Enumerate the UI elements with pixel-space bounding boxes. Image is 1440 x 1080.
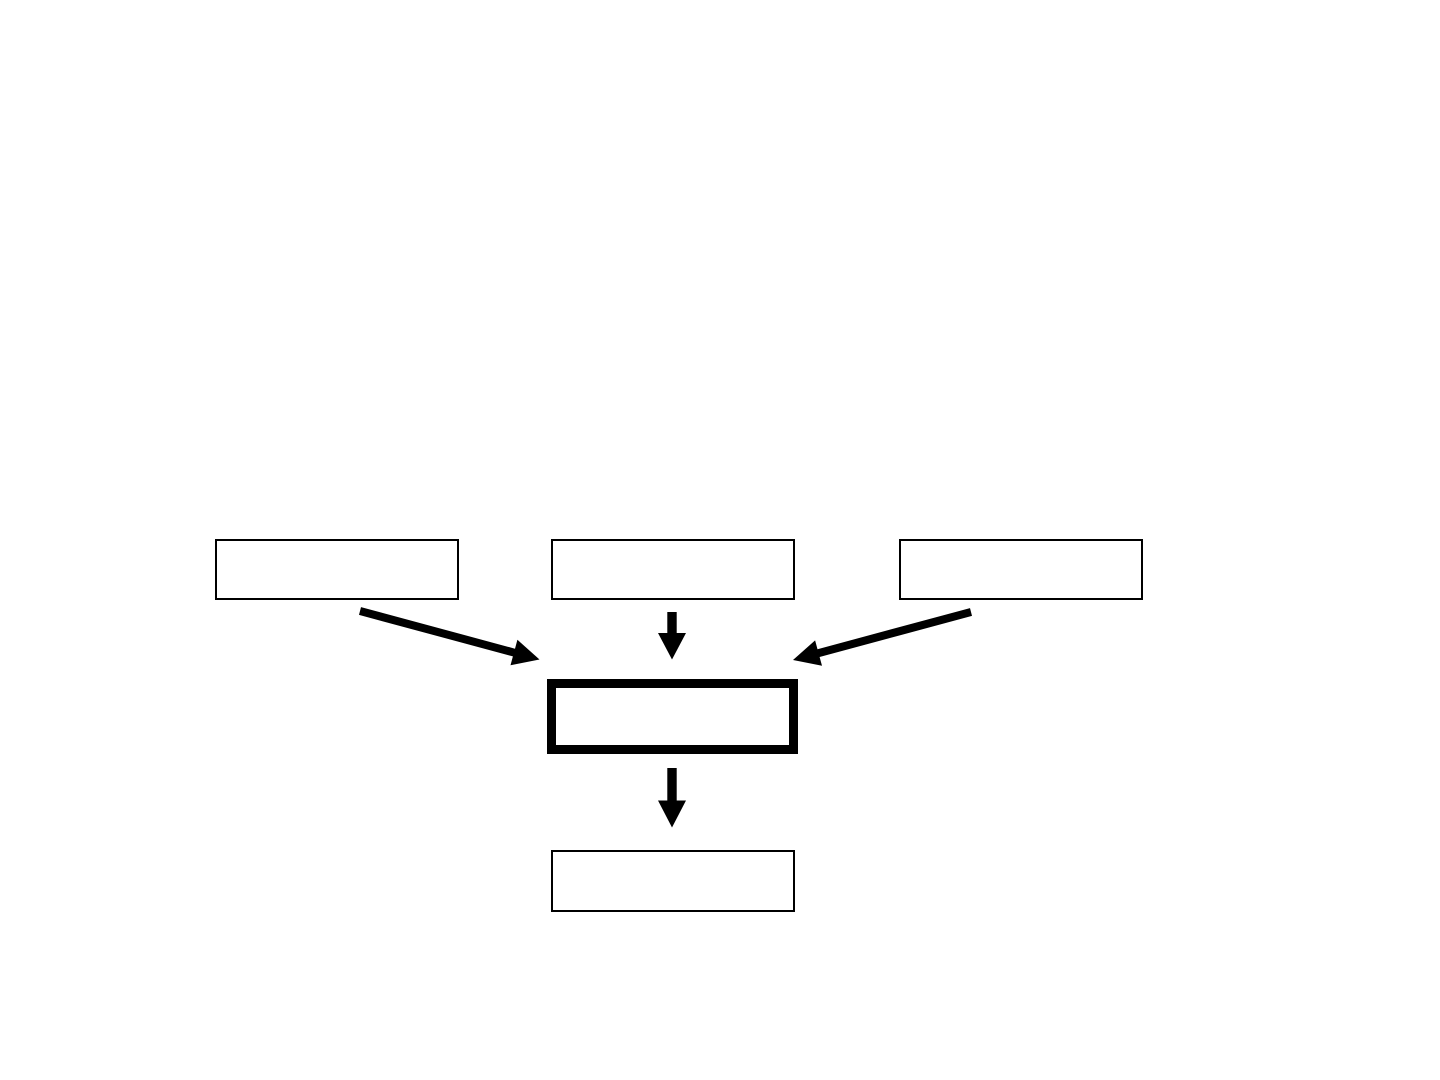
box: top-left input [216, 540, 458, 599]
arrow: vertical from top-middle box to center box [658, 612, 686, 660]
arrow: diagonal from top-left box to center box [359, 607, 540, 665]
arrow: vertical from center box to bottom box [658, 768, 686, 828]
box: bottom output [552, 851, 794, 911]
box: center (bold border) [552, 684, 794, 750]
box: top-middle input [552, 540, 794, 599]
arrow: diagonal from top-right box to center box [793, 608, 972, 666]
box: top-right input [900, 540, 1142, 599]
